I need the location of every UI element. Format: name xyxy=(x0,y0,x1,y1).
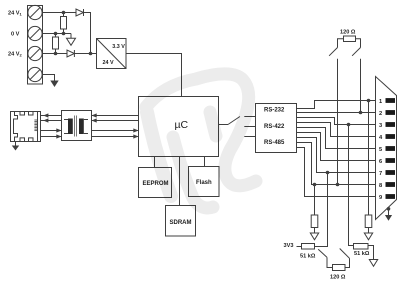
reference potential triangle 0V xyxy=(67,38,76,45)
svg-text:24 V2: 24 V2 xyxy=(8,52,23,58)
Flash U4 xyxy=(189,167,220,197)
wire uC to SDRAM xyxy=(179,157,181,206)
wire pin1 to pull resistor right xyxy=(368,101,370,216)
node connector shell earth xyxy=(387,207,391,211)
svg-text:SDRAM: SDRAM xyxy=(170,220,192,226)
EEPROM U3 xyxy=(139,168,172,198)
pin 4 xyxy=(379,134,395,141)
svg-text:5: 5 xyxy=(379,147,382,153)
wire serial 8 to pin 8 xyxy=(297,143,376,185)
node pin8 termination xyxy=(336,183,340,187)
functional earth arrow RJ45 xyxy=(12,146,19,151)
wire 24V2 row xyxy=(43,53,68,55)
wire 120 ohm top right lead xyxy=(356,39,361,48)
pin 2 xyxy=(379,110,395,117)
wire transformer-uC row1 xyxy=(92,115,139,117)
switch arm bottom right xyxy=(340,249,350,259)
wire terminal 4 to earth xyxy=(43,75,55,81)
wire resistor right to reference arrow xyxy=(368,228,370,234)
wire serial 6 to pin 6 xyxy=(297,133,376,161)
node diode outputs join xyxy=(89,52,93,56)
node R1 top xyxy=(62,11,66,15)
svg-text:51 kΩ: 51 kΩ xyxy=(354,251,370,257)
wire pin7 to bias junction xyxy=(315,173,328,247)
screw terminal 3 xyxy=(28,46,42,60)
wire transformer-uC row3 xyxy=(92,130,139,132)
resistor 120 ohm top xyxy=(344,36,356,42)
svg-text:6: 6 xyxy=(379,159,382,165)
svg-text:2: 2 xyxy=(379,111,382,117)
svg-text:120 Ω: 120 Ω xyxy=(330,275,346,281)
stub RS-485 xyxy=(244,136,255,138)
svg-text:3V3: 3V3 xyxy=(284,243,294,249)
svg-text:RS-232: RS-232 xyxy=(264,108,285,114)
transformer T1 xyxy=(62,111,92,141)
wire RJ45 shield to earth xyxy=(15,142,17,146)
terminal block X1 xyxy=(28,6,43,85)
wire serial 4 to pin 4 xyxy=(297,123,376,137)
svg-text:8: 8 xyxy=(379,183,382,189)
resistor 51k right xyxy=(354,244,369,250)
svg-text:RS-422: RS-422 xyxy=(264,124,285,130)
diode D1 xyxy=(76,9,84,16)
wire 0V to reference symbol xyxy=(70,34,72,39)
RJ45 jack X2 xyxy=(11,112,41,142)
svg-text:9: 9 xyxy=(379,195,382,201)
node pin7 bias xyxy=(326,171,330,175)
wire pin3 to 51k right xyxy=(349,125,354,246)
node pin3 termination xyxy=(347,123,351,127)
wire serial RXD to pin 2 xyxy=(297,112,376,114)
svg-text:Flash: Flash xyxy=(196,180,212,186)
wire 51k right to reference arrow xyxy=(368,246,374,260)
wire uC to EEPROM xyxy=(154,157,156,168)
wire RJ45-transformer row4 xyxy=(41,136,62,138)
resistor pull left xyxy=(311,215,318,228)
svg-text:24 V: 24 V xyxy=(103,60,114,66)
diode D2 xyxy=(67,50,74,57)
svg-text:1: 1 xyxy=(379,99,382,105)
interface selector switch xyxy=(228,117,240,125)
pin 8 xyxy=(379,182,395,189)
svg-text:µC: µC xyxy=(175,119,189,131)
node R2 bottom xyxy=(54,52,58,56)
SDRAM U5 xyxy=(166,206,196,237)
wire converter output to uC xyxy=(126,54,182,97)
node R1 bottom xyxy=(62,32,66,36)
microcontroller U2 xyxy=(139,97,219,157)
reference arrow bottom right xyxy=(369,260,377,267)
D-sub connector X3 xyxy=(376,77,397,220)
wire pin8 to pull resistor left xyxy=(314,185,316,216)
svg-text:3.3 V: 3.3 V xyxy=(112,44,125,50)
wire RJ45-transformer row3 xyxy=(41,130,62,132)
wire 24V1 row xyxy=(43,12,77,14)
wire D2 cathode to converter xyxy=(74,53,96,55)
svg-text:7: 7 xyxy=(379,171,382,177)
arrow into uC row3 xyxy=(133,128,138,132)
svg-text:RS-485: RS-485 xyxy=(264,140,285,146)
arrow into transformer row2 xyxy=(92,118,97,122)
wire top right contact to pin2 xyxy=(360,59,362,113)
wire top left contact to pin8 xyxy=(337,59,339,185)
wire RJ45-transformer row2 xyxy=(41,120,62,122)
svg-text:3: 3 xyxy=(379,123,382,129)
arrow into uC row4 xyxy=(133,134,138,138)
wire serial 9 to pin 9 xyxy=(297,148,376,197)
wire switch to 120 ohm bottom xyxy=(327,257,333,267)
DC-DC converter U1 xyxy=(97,39,127,69)
resistor R2 xyxy=(53,34,59,54)
resistor 51k left xyxy=(302,244,315,250)
svg-text:120 Ω: 120 Ω xyxy=(340,30,356,36)
wire RJ45-transformer row1 xyxy=(41,115,62,117)
wire serial 5 to pin 5 xyxy=(297,128,376,149)
switch arm bottom left xyxy=(318,249,327,257)
pin 1 xyxy=(379,98,395,105)
arrow into transformer row1 xyxy=(92,113,97,117)
serial interface box U6 xyxy=(256,104,297,153)
arrow into RJ45 row1 xyxy=(43,113,48,117)
pin 5 xyxy=(379,146,395,153)
pin 6 xyxy=(379,158,395,165)
resistor 120 ohm bottom xyxy=(333,265,346,271)
wire 3V3 to resistor xyxy=(297,246,302,248)
stub RS-232 xyxy=(244,116,255,118)
wire uC to interface switch xyxy=(219,124,229,126)
node pin2 termination xyxy=(359,111,363,115)
node pin1 termination xyxy=(367,99,371,103)
wire uC to Flash xyxy=(204,157,206,167)
svg-text:0 V: 0 V xyxy=(11,32,20,38)
switch arm top right xyxy=(352,48,360,56)
svg-text:51 kΩ: 51 kΩ xyxy=(300,254,316,260)
reference arrow left chain xyxy=(310,233,318,240)
wire serial TXD to pin 1 xyxy=(297,101,376,109)
node pin8 pulldown xyxy=(313,183,317,187)
wire transformer-uC row2 xyxy=(92,120,139,122)
wire 0V row xyxy=(43,33,72,35)
wire serial 7 to pin 7 xyxy=(297,138,376,173)
watermark xyxy=(146,74,256,208)
stub RS-422 xyxy=(244,126,255,128)
reference arrow right chain xyxy=(364,233,372,240)
wire resistor left to reference arrow xyxy=(314,228,316,234)
wire transformer-uC row4 xyxy=(92,136,139,138)
svg-text:24 V1: 24 V1 xyxy=(8,11,23,17)
pin 7 xyxy=(379,170,395,177)
resistor pull right xyxy=(365,215,372,228)
node R2 top xyxy=(54,32,58,36)
switch arm top left xyxy=(329,48,337,56)
functional earth arrow connector xyxy=(385,215,392,221)
pin 3 xyxy=(379,122,395,129)
screw terminal 4 xyxy=(28,67,42,81)
resistor R1 xyxy=(61,13,67,34)
arrow into transformer row4 xyxy=(56,134,61,138)
pin 9 xyxy=(379,194,395,201)
wire D1 cathode to converter input xyxy=(84,13,91,54)
wire 120 ohm top left lead xyxy=(338,39,344,48)
wire 120 ohm bottom right lead xyxy=(345,258,350,267)
arrow into RJ45 row2 xyxy=(43,118,48,122)
wire shell to earth xyxy=(388,209,390,215)
arrow into transformer row3 xyxy=(56,128,61,132)
screw terminal 2 xyxy=(28,26,42,40)
screw terminal 1 xyxy=(28,5,42,19)
wire serial 3 to pin 3 xyxy=(297,118,376,125)
functional earth arrow terminal 4 xyxy=(50,81,58,88)
